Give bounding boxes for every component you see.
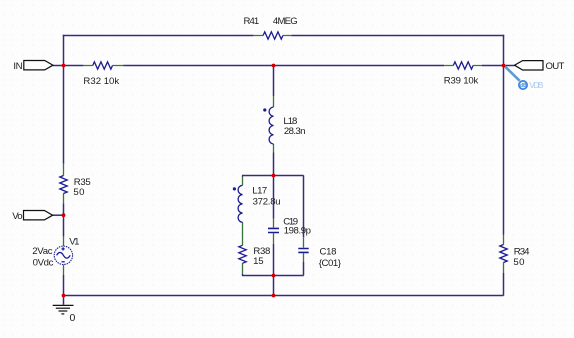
- wire IN pin to junction: [53, 65, 64, 67]
- junction node mid top: [272, 64, 276, 68]
- junction node ground: [62, 294, 66, 298]
- svg-text:0: 0: [70, 312, 76, 324]
- svg-text:R34: R34: [514, 246, 530, 257]
- svg-text:Vo: Vo: [12, 211, 22, 222]
- junction node Vo: [62, 213, 66, 217]
- svg-text:L17: L17: [252, 186, 267, 197]
- wire tank right vertical upper (over text): [303, 176, 305, 238]
- capacitor C18: [298, 237, 341, 269]
- svg-text:IN: IN: [13, 61, 22, 72]
- wire main horizontal junction to R32: [64, 65, 84, 67]
- junction node IN: [62, 64, 66, 68]
- svg-text:R32 10k: R32 10k: [83, 76, 119, 87]
- svg-text:2Vac: 2Vac: [32, 246, 53, 257]
- svg-text:V1: V1: [69, 237, 79, 248]
- capacitor C19: [268, 217, 311, 244]
- svg-text:OUT: OUT: [546, 61, 565, 72]
- svg-text:0Vdc: 0Vdc: [33, 258, 54, 269]
- wire middle vertical L18 to tank top: [273, 153, 275, 176]
- port OUT: [515, 61, 565, 73]
- wire bottom horizontal: [63, 295, 504, 297]
- resistor R35: [60, 164, 91, 204]
- probe marker VDB: [504, 66, 544, 90]
- junction node bottom mid: [272, 294, 276, 298]
- wire tank bottom to main bottom: [273, 276, 275, 296]
- resistor R32: [83, 62, 123, 87]
- wire tank bottom horizontal: [242, 275, 304, 277]
- svg-text:50: 50: [513, 257, 524, 268]
- wire main horizontal R32 to R39: [123, 65, 444, 67]
- wire middle vertical tank top to C19 (over text): [273, 176, 275, 219]
- svg-text:R41: R41: [244, 16, 260, 27]
- inductor L17: [233, 177, 281, 233]
- junction node tank bottom: [272, 274, 276, 278]
- svg-text:C18: C18: [320, 247, 337, 258]
- inductor L18: [263, 96, 305, 153]
- svg-text:28.3n: 28.3n: [284, 126, 306, 137]
- wire tank left bottom corner stub: [242, 274, 244, 276]
- wire Vo pin to junction: [53, 214, 64, 216]
- svg-text:15: 15: [253, 256, 264, 267]
- wire main horizontal R39 to OUT junction: [482, 65, 504, 67]
- resistor R41: [244, 16, 298, 39]
- ground 0: [53, 296, 76, 324]
- svg-text:VDB: VDB: [529, 80, 544, 90]
- svg-text:372.8u: 372.8u: [253, 197, 281, 208]
- resistor R39: [444, 62, 482, 87]
- junction node tank top: [272, 174, 276, 178]
- wire left vertical between R35 and V1: [63, 203, 65, 236]
- junction node OUT: [502, 64, 506, 68]
- wire right vertical lower: [503, 273, 505, 296]
- wire tank left top corner stub: [242, 176, 244, 177]
- wire middle vertical above L18: [273, 66, 275, 97]
- voltage source V1: [32, 237, 79, 275]
- resistor R38: [239, 232, 271, 274]
- resistor R34: [500, 235, 530, 274]
- svg-text:dB: dB: [520, 83, 527, 89]
- wire right vertical upper: [503, 35, 505, 235]
- port Vo: [12, 211, 53, 222]
- wire left vertical top: [63, 35, 65, 164]
- wire tank top horizontal: [242, 175, 304, 177]
- wire top horizontal left of R41: [63, 35, 254, 37]
- svg-text:4MEG: 4MEG: [273, 16, 298, 27]
- wire left vertical below V1: [63, 275, 65, 296]
- svg-text:198.9p: 198.9p: [284, 225, 311, 236]
- svg-text:50: 50: [73, 187, 84, 198]
- svg-text:R39 10k: R39 10k: [444, 76, 479, 87]
- wire middle vertical C19 to tank bottom: [273, 244, 275, 276]
- wire OUT junction to OUT port pin: [504, 65, 515, 67]
- port IN: [13, 61, 53, 72]
- wire top horizontal right of R41: [291, 35, 504, 37]
- svg-text:{C01}: {C01}: [319, 258, 342, 269]
- wire tank right vertical lower: [303, 262, 305, 276]
